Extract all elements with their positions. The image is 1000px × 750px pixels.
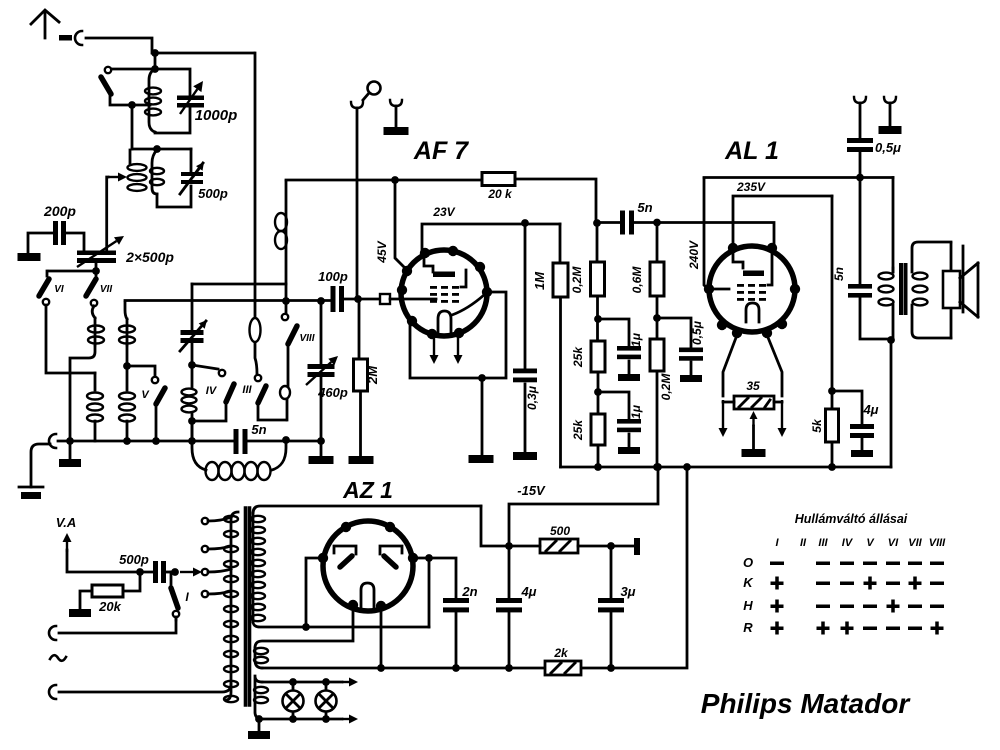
svg-text:100p: 100p <box>318 269 348 284</box>
ground 460p <box>309 456 334 464</box>
svg-text:23V: 23V <box>432 205 455 219</box>
junction L3b <box>123 362 131 370</box>
wire 5k bottom <box>831 442 834 467</box>
svg-text:IV: IV <box>842 537 854 549</box>
table marks <box>770 562 944 635</box>
switch VII blade <box>86 271 96 296</box>
junction padder coil <box>188 361 196 369</box>
junction 20k riser <box>136 568 144 576</box>
wire L3b to junction <box>126 345 129 366</box>
junction bus 25k <box>594 463 602 471</box>
wire 2M leads <box>359 299 361 456</box>
junction 25k a <box>594 315 602 323</box>
resistor 2M <box>354 359 368 391</box>
switch III contact <box>255 375 261 381</box>
resistor 25k a <box>591 341 605 372</box>
wire mid branch x255 <box>250 301 261 374</box>
junction bus 5k <box>828 463 836 471</box>
resistor 5k <box>826 409 839 442</box>
label 2n <box>461 584 477 599</box>
AL1 cathode leads <box>723 335 782 396</box>
svg-text:III: III <box>818 537 828 549</box>
svg-text:200p: 200p <box>43 203 76 219</box>
wire 240V <box>704 178 707 288</box>
wire VI down <box>46 305 95 373</box>
junction heater b <box>377 664 385 672</box>
svg-text:500p: 500p <box>119 552 149 567</box>
svg-text:Philips Matador: Philips Matador <box>701 688 912 719</box>
wire 2x500p bottom <box>49 263 96 271</box>
ground lower-left <box>19 487 43 499</box>
junction L5 bottom <box>188 417 196 445</box>
capacitor 0.3u <box>513 369 537 383</box>
capacitor 1u a <box>598 319 641 381</box>
wire 5n feed <box>597 221 620 224</box>
ground 35 <box>742 449 766 457</box>
switch I <box>171 572 179 620</box>
wire padder drop <box>191 284 194 330</box>
table row labels <box>743 555 754 635</box>
AF7 heater arrows <box>430 336 463 364</box>
label 500 <box>550 524 570 538</box>
resistor 1M <box>553 263 568 297</box>
junction bus -15V <box>654 463 691 471</box>
wire output primary top <box>892 178 895 273</box>
junction lamp2 bottom <box>322 715 330 723</box>
svg-text:5k: 5k <box>810 418 824 433</box>
svg-text:5n: 5n <box>637 200 652 215</box>
svg-text:0,6M: 0,6M <box>630 266 644 294</box>
coil L4b <box>119 366 135 441</box>
svg-text:Hullámváltó állásai: Hullámváltó állásai <box>795 512 908 526</box>
capacitor 100p <box>331 286 345 312</box>
label 1000p <box>195 107 238 124</box>
lamp 1 <box>283 682 304 719</box>
svg-text:500p: 500p <box>198 186 228 201</box>
wire mains top <box>59 617 176 633</box>
junction 0.3u tap <box>521 219 529 227</box>
svg-text:II: II <box>800 537 807 549</box>
capacitor 4u right <box>832 391 874 457</box>
wire AZ1 right pin <box>413 558 429 627</box>
coil L1 <box>145 69 161 132</box>
svg-text:2k: 2k <box>553 646 569 660</box>
mains connector b <box>49 685 56 699</box>
svg-text:20 k: 20 k <box>487 187 513 201</box>
junction 460p top <box>317 297 325 305</box>
switch IV contact <box>219 370 225 376</box>
svg-text:V.A: V.A <box>56 515 76 530</box>
wire bus riser <box>581 467 687 668</box>
junction ground line left <box>66 437 74 445</box>
label 0.2M <box>570 266 584 294</box>
tube AF7 envelope <box>397 246 492 339</box>
terminal gnd right <box>879 97 902 134</box>
antenna plug connector <box>59 31 82 45</box>
capacitor 200p <box>53 221 66 245</box>
wire lamp top <box>262 678 358 687</box>
switch VIII contact <box>282 314 288 320</box>
label 5k <box>810 418 824 433</box>
svg-text:O: O <box>743 555 753 570</box>
label 500p va <box>119 552 149 567</box>
junction B+ 5n node <box>593 219 601 227</box>
ground 200p <box>18 253 41 261</box>
label 1u b <box>629 404 643 419</box>
AZ1 cathode <box>361 583 374 609</box>
svg-text:VII: VII <box>908 537 922 549</box>
ground AF7 <box>469 455 494 463</box>
capacitor 4u main <box>496 598 522 612</box>
resistor 2k <box>545 661 581 675</box>
svg-text:5n: 5n <box>251 422 266 437</box>
junction 25k b <box>594 388 602 396</box>
wire osc line <box>247 440 321 443</box>
label 240V <box>687 240 701 270</box>
capacitor 460p <box>306 356 338 385</box>
speaker magnet <box>943 271 960 308</box>
label 0.5u <box>690 320 704 345</box>
wire tap down to tank2 <box>131 105 134 149</box>
svg-text:-15V: -15V <box>517 483 546 498</box>
ground 0.3u <box>513 452 537 460</box>
wire 235V <box>733 196 832 248</box>
tube AL1 envelope <box>704 243 800 338</box>
label 4u main <box>520 584 536 599</box>
AF7 grids <box>430 270 466 303</box>
ground lamps <box>248 719 270 739</box>
switch VII contact <box>91 300 97 306</box>
svg-text:240V: 240V <box>687 240 701 270</box>
label 200p <box>43 203 76 219</box>
junction 5k node <box>828 387 836 395</box>
resistor 25k b <box>591 414 605 445</box>
phono connector left <box>49 434 56 448</box>
wire VA line <box>67 550 153 572</box>
junction tank2 top <box>153 145 161 153</box>
label 4u right <box>862 402 878 417</box>
label 2k <box>553 646 569 660</box>
capacitor padder 460p var <box>180 320 207 351</box>
label AF7 <box>413 137 469 165</box>
capacitor 500p <box>180 162 204 194</box>
junction switch I top <box>171 568 179 576</box>
junction 500 node <box>505 542 513 550</box>
svg-text:VIII: VIII <box>929 537 946 549</box>
ground lower-left stem <box>31 444 50 487</box>
label I <box>185 590 189 604</box>
junction lamp2 top <box>322 678 330 686</box>
wire IV bottom <box>192 403 226 421</box>
wire 20k riser <box>123 572 140 591</box>
svg-text:25k: 25k <box>571 346 585 368</box>
antenna symbol <box>31 10 59 38</box>
label 20k va <box>98 599 121 614</box>
junction tank1 top <box>151 65 159 73</box>
wire 100p to grid cap <box>344 298 380 301</box>
label 1u a <box>629 332 643 347</box>
wire mains bottom <box>59 684 231 692</box>
junction AZ1 2n tap <box>425 554 433 562</box>
wire lamp bottom <box>259 715 358 724</box>
junction 45V <box>391 176 399 184</box>
coil L3b <box>119 302 135 345</box>
label 23V <box>432 205 455 219</box>
label 460p <box>317 385 348 400</box>
wire output to bus <box>890 340 893 467</box>
wire node to tank1 <box>154 53 157 69</box>
wire main bus <box>561 466 892 469</box>
label 1M <box>532 271 547 290</box>
AL1 cathode <box>711 289 759 322</box>
symbol AC <box>50 655 66 661</box>
mains connector a <box>49 626 56 640</box>
switch S1 blade <box>101 77 111 94</box>
wire 200p left to ground <box>28 233 53 253</box>
wire bottom line left <box>58 440 234 443</box>
label 235V <box>736 180 766 194</box>
label 45V <box>375 240 389 263</box>
junction VIII bottom <box>282 436 290 444</box>
AZ1 anode right <box>380 546 402 567</box>
label 0.6M <box>630 266 644 294</box>
wire tank2 right branch <box>157 149 191 207</box>
pot left arrow <box>719 400 735 437</box>
junction output bottom <box>887 336 895 344</box>
label VI <box>54 284 64 295</box>
junction grid line VIII <box>282 297 290 305</box>
wire 0.2M b bottom <box>656 371 659 467</box>
wire 23V <box>422 224 560 250</box>
coil L5 osc tap <box>182 365 197 441</box>
svg-text:2×500p: 2×500p <box>125 249 174 265</box>
wire junction to switch V <box>127 366 155 376</box>
wire padder to coil <box>191 343 194 365</box>
junction 0.6M node <box>653 219 661 227</box>
wire B+ line right <box>515 179 596 223</box>
label 0.2M b <box>659 373 673 401</box>
junction 460p line <box>317 437 325 445</box>
label III <box>242 384 252 396</box>
wire HT bottom <box>253 622 429 627</box>
svg-text:235V: 235V <box>736 180 766 194</box>
terminal bar 546 <box>634 538 640 555</box>
resistor 20k va <box>92 585 123 597</box>
svg-text:VII: VII <box>100 284 112 295</box>
svg-text:2M: 2M <box>365 365 380 385</box>
junction bus 0.2Mb <box>653 463 661 471</box>
svg-text:VI: VI <box>54 284 64 295</box>
svg-text:0,3μ: 0,3μ <box>525 385 539 410</box>
primary tap terminals <box>202 517 231 597</box>
wire VIII to coil <box>280 346 290 420</box>
junction 2n bottom <box>452 664 460 672</box>
svg-text:VIII: VIII <box>299 333 314 344</box>
junction 2M tap <box>354 295 362 303</box>
wire AZ1 out <box>481 506 509 546</box>
capacitor 5n tone <box>848 284 872 298</box>
label VII <box>100 284 112 295</box>
label 0.3u <box>525 385 539 410</box>
switch VI contact <box>43 299 49 305</box>
svg-text:0,5μ: 0,5μ <box>875 140 901 155</box>
junction HT left pin <box>302 623 310 631</box>
capacitor 5n osc <box>234 429 248 454</box>
capacitor 1u b <box>598 392 641 454</box>
speaker cone <box>960 246 978 317</box>
resistor 500 <box>509 539 634 553</box>
label 2x500p <box>125 249 174 265</box>
wire AZ1 left pin <box>306 558 323 627</box>
capacitor 500p va <box>153 561 166 583</box>
svg-text:5n: 5n <box>832 267 846 281</box>
junction B+ 0.5u <box>856 174 864 182</box>
wire 45V <box>395 180 405 268</box>
label 35 <box>746 379 760 393</box>
svg-text:1μ: 1μ <box>629 404 643 419</box>
wire tank2 top <box>132 148 191 151</box>
svg-text:VI: VI <box>888 537 899 549</box>
svg-text:K: K <box>743 575 754 590</box>
svg-text:1μ: 1μ <box>629 332 643 347</box>
wire 200p right <box>66 233 84 251</box>
AL1 grids <box>737 252 772 301</box>
pot right arrow <box>774 400 787 437</box>
wire 3u <box>610 546 613 668</box>
label V <box>141 389 150 401</box>
ground 20k <box>69 609 91 617</box>
transformer primary <box>224 512 238 702</box>
VA arrow <box>63 533 72 552</box>
label VIII <box>299 333 314 344</box>
junction V bottom <box>152 437 160 445</box>
junction 0.5u node <box>653 314 661 322</box>
wire tone line <box>860 178 891 340</box>
wire 5n to AL1 grid <box>634 223 774 250</box>
coil L4a <box>87 373 103 441</box>
switch VI blade <box>39 271 49 296</box>
grid cap connector AF7 <box>380 294 436 304</box>
AF7 cathode box <box>410 292 506 378</box>
svg-text:4μ: 4μ <box>862 402 878 417</box>
terminal ground post <box>384 100 409 135</box>
svg-text:AF 7: AF 7 <box>413 137 469 165</box>
wire AZ1 heater b <box>380 608 383 668</box>
label AL1 <box>724 137 779 165</box>
svg-text:45V: 45V <box>375 240 389 263</box>
label 5n osc <box>251 422 266 437</box>
svg-text:IV: IV <box>206 385 218 397</box>
ground 2M <box>349 456 374 464</box>
wire B+ line left <box>286 179 482 182</box>
terminal pickup <box>351 102 363 299</box>
resistor 20k <box>482 173 515 186</box>
switch S1 wire <box>110 68 155 71</box>
junction lamp1 bottom <box>289 715 297 723</box>
label 5n coupling <box>637 200 652 215</box>
coil L2 primary <box>128 150 147 191</box>
wire AF7 box ground <box>481 378 484 455</box>
svg-text:AZ 1: AZ 1 <box>342 477 393 503</box>
capacitor 5n coupling <box>620 211 634 235</box>
wire IV top <box>192 365 218 369</box>
output transformer secondary <box>912 242 951 338</box>
wire 500p to arrow <box>166 571 177 574</box>
label 5n tone <box>832 267 846 281</box>
svg-text:0,2M: 0,2M <box>659 373 673 401</box>
resistor 35 hum pot <box>734 396 774 409</box>
wire grid line <box>125 299 331 302</box>
wire III bottom <box>258 405 286 420</box>
resistor 0.2M <box>591 262 605 296</box>
wire 5k top <box>831 391 834 409</box>
wire 0.6M bottom <box>656 296 659 339</box>
resistor 0.6M <box>650 262 664 296</box>
coil lamp winding <box>254 676 268 719</box>
wire V down <box>155 406 158 441</box>
junction 3u node <box>607 542 615 550</box>
capacitor 2x500p gang <box>77 236 124 267</box>
switch S1 lower wire <box>110 96 150 105</box>
table title <box>795 512 908 526</box>
switch V blade <box>156 388 165 404</box>
wire 20k to ground <box>80 591 92 609</box>
svg-text:0,5μ: 0,5μ <box>690 320 704 345</box>
wire L3a bottom to ground line <box>70 345 95 441</box>
wire HT top <box>253 506 481 513</box>
svg-text:35: 35 <box>746 379 760 393</box>
coil choke x286 <box>275 181 287 301</box>
wire AZ1 heater a <box>255 607 353 648</box>
output transformer primary <box>879 268 894 340</box>
wire 0.2M top <box>596 223 599 262</box>
label 2M <box>365 365 380 385</box>
svg-text:1M: 1M <box>532 271 547 290</box>
coil heater winding <box>254 648 268 668</box>
terminal aerial right <box>854 97 866 138</box>
capacitor 0.5u top <box>847 138 873 152</box>
label 500p <box>198 186 228 201</box>
pot wiper <box>750 411 758 449</box>
label 100p <box>318 269 348 284</box>
wire -15V <box>509 467 658 546</box>
title Philips Matador <box>701 688 912 719</box>
switch III blade <box>258 386 266 403</box>
wire 1M bottom <box>559 297 562 467</box>
switch S1 contact <box>105 67 111 73</box>
svg-text:0,2M: 0,2M <box>570 266 584 294</box>
svg-text:AL 1: AL 1 <box>724 137 779 165</box>
label 25k b <box>571 419 585 441</box>
junction lamp1 top <box>289 678 297 686</box>
coil L3a <box>88 306 104 345</box>
wire tank1 right branch <box>155 69 190 133</box>
junction 2x500p out <box>92 267 100 275</box>
wire 0.5u down <box>859 152 862 177</box>
svg-text:460p: 460p <box>317 385 348 400</box>
AF7 cathode <box>438 295 484 334</box>
junction antenna node <box>151 49 159 57</box>
AF7 anode <box>424 255 455 277</box>
svg-text:3μ: 3μ <box>620 584 635 599</box>
wire B+ right <box>704 176 893 179</box>
label 20k <box>487 187 513 201</box>
junction 3u bottom <box>607 664 615 672</box>
junction AF7 box <box>478 374 486 382</box>
wire 25k mid <box>597 372 600 414</box>
AL1 anode <box>733 250 764 276</box>
capacitor 2n <box>443 598 469 612</box>
